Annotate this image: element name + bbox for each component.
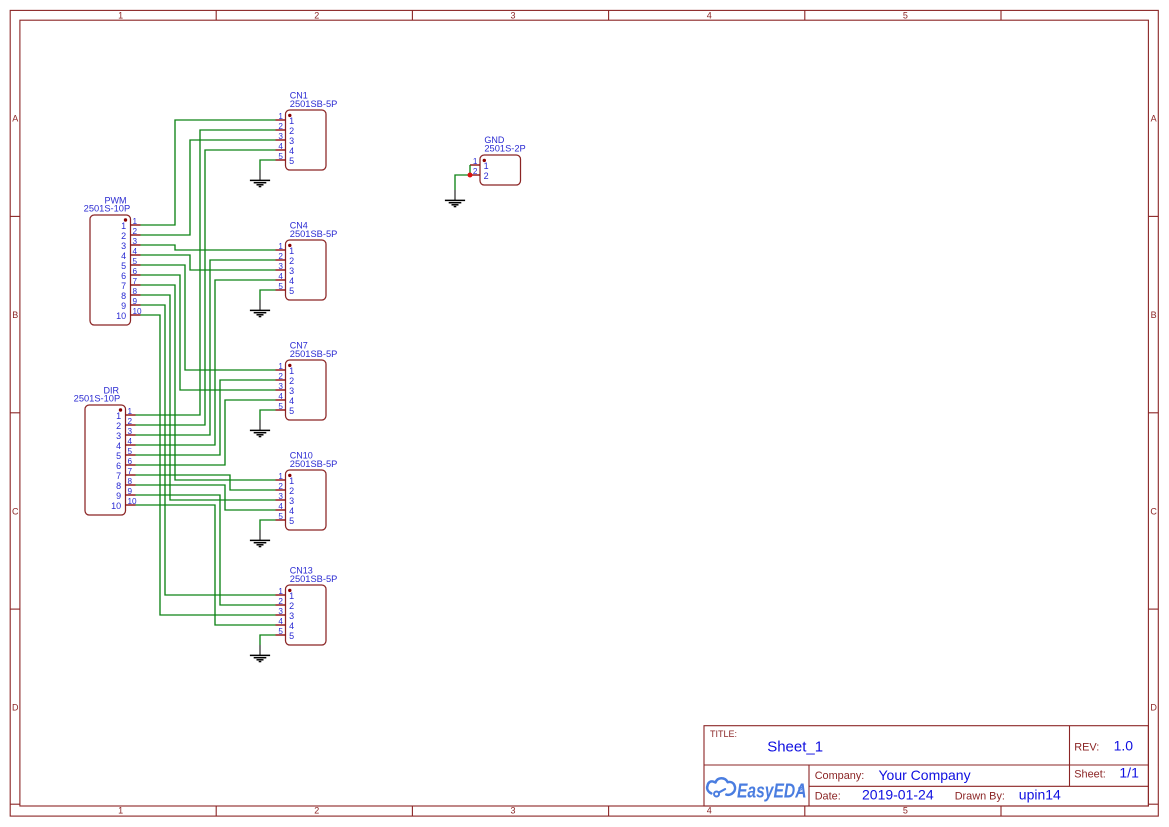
svg-text:A: A xyxy=(1151,114,1157,124)
svg-text:1: 1 xyxy=(278,242,283,251)
svg-text:3: 3 xyxy=(289,136,294,146)
svg-text:2: 2 xyxy=(289,376,294,386)
wire PWM.3 to CN4.1 xyxy=(141,245,276,250)
CN7 pin 2 (stub, pin number, pin name) xyxy=(276,372,295,386)
svg-text:3: 3 xyxy=(289,386,294,396)
DIR pin 10 (stub, pin number, pin name) xyxy=(111,497,137,511)
svg-text:5: 5 xyxy=(278,512,283,521)
wire DIR.9 to CN13.2 xyxy=(136,495,276,605)
CN4 pin 3 (stub, pin number, pin name) xyxy=(276,262,295,276)
svg-text:upin14: upin14 xyxy=(1019,786,1061,802)
CN7 pin 5 (stub, pin number, pin name) xyxy=(276,402,295,416)
DIR pin 2 (stub, pin number, pin name) xyxy=(116,417,135,431)
PWM pin 10 (stub, pin number, pin name) xyxy=(116,307,142,321)
PWM pin 6 (stub, pin number, pin name) xyxy=(121,267,140,281)
svg-text:6: 6 xyxy=(128,457,133,466)
CN13 pin 5 (stub, pin number, pin name) xyxy=(276,627,295,641)
CN10 pin 4 (stub, pin number, pin name) xyxy=(276,502,295,516)
svg-text:5: 5 xyxy=(289,156,294,166)
DIR pin 6 (stub, pin number, pin name) xyxy=(116,457,135,471)
wire DIR.2 to CN1.4 xyxy=(136,150,276,425)
svg-text:4: 4 xyxy=(116,441,121,451)
ground under CN10 xyxy=(250,530,270,547)
svg-text:2: 2 xyxy=(289,486,294,496)
wire DIR.7 to CN10.2 xyxy=(136,475,276,490)
DIR pin 7 (stub, pin number, pin name) xyxy=(116,467,135,481)
svg-text:B: B xyxy=(12,310,18,320)
svg-text:5: 5 xyxy=(278,627,283,636)
GND pin 1 (stub, pin number, pin name) xyxy=(470,157,489,171)
svg-text:3: 3 xyxy=(278,132,283,141)
svg-text:2: 2 xyxy=(121,231,126,241)
ground under CN13 xyxy=(250,645,270,662)
CN4 pin 2 (stub, pin number, pin name) xyxy=(276,252,295,266)
wire GND.2 to ground xyxy=(455,175,470,190)
CN1 pin 4 (stub, pin number, pin name) xyxy=(276,142,295,156)
svg-text:4: 4 xyxy=(289,506,294,516)
EasyEDA logo xyxy=(707,778,735,796)
CN13 pin-1 marker dot xyxy=(288,589,291,592)
connector CN10 xyxy=(276,450,338,530)
svg-text:1: 1 xyxy=(128,407,133,416)
svg-text:2: 2 xyxy=(314,11,319,21)
DIR pin 4 (stub, pin number, pin name) xyxy=(116,437,135,451)
svg-text:5: 5 xyxy=(289,516,294,526)
svg-text:1: 1 xyxy=(118,806,123,816)
svg-text:1: 1 xyxy=(484,161,489,171)
PWM pin 9 (stub, pin number, pin name) xyxy=(121,297,140,311)
svg-text:1: 1 xyxy=(278,472,283,481)
svg-text:Drawn By:: Drawn By: xyxy=(955,790,1005,802)
svg-text:3: 3 xyxy=(278,492,283,501)
svg-text:3: 3 xyxy=(278,607,283,616)
svg-text:1: 1 xyxy=(133,217,138,226)
svg-text:3: 3 xyxy=(133,237,138,246)
PWM body xyxy=(90,215,131,325)
svg-text:4: 4 xyxy=(121,251,126,261)
svg-text:5: 5 xyxy=(278,152,283,161)
svg-text:2501SB-5P: 2501SB-5P xyxy=(290,349,338,359)
svg-text:5: 5 xyxy=(903,11,908,21)
PWM pin 3 (stub, pin number, pin name) xyxy=(121,237,140,251)
wire PWM.1 to CN1.1 xyxy=(141,120,276,225)
svg-text:1: 1 xyxy=(289,476,294,486)
junction at GND pin 2 xyxy=(468,173,473,178)
svg-text:B: B xyxy=(1151,310,1157,320)
svg-text:2: 2 xyxy=(278,482,283,491)
svg-text:4: 4 xyxy=(128,437,133,446)
CN4 pin 4 (stub, pin number, pin name) xyxy=(276,272,295,286)
svg-text:6: 6 xyxy=(121,271,126,281)
PWM pin 5 (stub, pin number, pin name) xyxy=(121,257,140,271)
CN10 body xyxy=(286,470,327,530)
svg-text:2501S-2P: 2501S-2P xyxy=(484,144,525,154)
svg-text:2: 2 xyxy=(278,372,283,381)
connector CN7 xyxy=(276,340,338,420)
wire CN4.5 to ground xyxy=(260,290,276,300)
svg-text:5: 5 xyxy=(278,282,283,291)
wire CN1.5 to ground xyxy=(260,160,276,170)
CN10 pin 3 (stub, pin number, pin name) xyxy=(276,492,295,506)
connector DIR xyxy=(74,385,137,515)
wire CN10.5 to ground xyxy=(260,520,276,530)
connector CN13 xyxy=(276,565,338,645)
svg-text:2: 2 xyxy=(289,601,294,611)
svg-text:4: 4 xyxy=(289,621,294,631)
svg-text:5: 5 xyxy=(133,257,138,266)
CN10 pin 1 (stub, pin number, pin name) xyxy=(276,472,295,486)
connector CN4 xyxy=(276,220,338,300)
svg-text:9: 9 xyxy=(121,301,126,311)
svg-text:9: 9 xyxy=(128,487,133,496)
svg-text:4: 4 xyxy=(289,276,294,286)
svg-text:2501SB-5P: 2501SB-5P xyxy=(290,99,338,109)
svg-text:8: 8 xyxy=(133,287,138,296)
svg-text:6: 6 xyxy=(133,267,138,276)
svg-text:4: 4 xyxy=(289,396,294,406)
CN1 pin-1 marker dot xyxy=(288,114,291,117)
svg-text:1/1: 1/1 xyxy=(1119,765,1139,781)
svg-text:4: 4 xyxy=(278,272,283,281)
svg-text:5: 5 xyxy=(289,631,294,641)
svg-text:2501SB-5P: 2501SB-5P xyxy=(290,574,338,584)
GND body xyxy=(480,155,521,185)
svg-text:D: D xyxy=(12,703,19,713)
svg-text:3: 3 xyxy=(278,382,283,391)
CN13 pin 1 (stub, pin number, pin name) xyxy=(276,587,295,601)
svg-text:10: 10 xyxy=(111,501,121,511)
svg-text:4: 4 xyxy=(278,142,283,151)
CN10 pin 5 (stub, pin number, pin name) xyxy=(276,512,295,526)
svg-text:D: D xyxy=(1150,703,1157,713)
ground under CN4 xyxy=(250,300,270,317)
svg-text:Company:: Company: xyxy=(815,770,865,782)
CN1 pin 5 (stub, pin number, pin name) xyxy=(276,152,295,166)
CN1 pin 2 (stub, pin number, pin name) xyxy=(276,122,295,136)
svg-text:2501SB-5P: 2501SB-5P xyxy=(290,229,338,239)
wire DIR.10 to CN13.4 xyxy=(136,505,276,625)
svg-text:9: 9 xyxy=(133,297,138,306)
svg-text:5: 5 xyxy=(289,286,294,296)
svg-text:EasyEDA: EasyEDA xyxy=(737,779,807,802)
svg-text:5: 5 xyxy=(278,402,283,411)
svg-text:1: 1 xyxy=(289,116,294,126)
svg-text:Sheet:: Sheet: xyxy=(1074,769,1106,781)
svg-text:2: 2 xyxy=(289,256,294,266)
svg-text:A: A xyxy=(12,114,18,124)
wire DIR.4 to CN4.4 xyxy=(136,280,276,445)
PWM pin 4 (stub, pin number, pin name) xyxy=(121,247,140,261)
svg-text:4: 4 xyxy=(278,617,283,626)
PWM pin 1 (stub, pin number, pin name) xyxy=(121,217,140,231)
svg-text:5: 5 xyxy=(116,451,121,461)
wire PWM.5 to CN7.1 xyxy=(141,265,276,370)
wire PWM.9 to CN13.1 xyxy=(141,305,276,595)
svg-text:1: 1 xyxy=(278,112,283,121)
svg-text:2: 2 xyxy=(133,227,138,236)
svg-text:TITLE:: TITLE: xyxy=(710,729,737,739)
CN1 pin 1 (stub, pin number, pin name) xyxy=(276,112,295,126)
svg-text:5: 5 xyxy=(289,406,294,416)
ground under CN1 xyxy=(250,170,270,187)
svg-text:1: 1 xyxy=(278,362,283,371)
svg-text:8: 8 xyxy=(116,481,121,491)
svg-text:Date:: Date: xyxy=(815,790,841,802)
svg-text:2: 2 xyxy=(278,252,283,261)
wire GND.1 to GND.2 node xyxy=(469,165,471,175)
svg-text:1: 1 xyxy=(116,411,121,421)
svg-text:REV:: REV: xyxy=(1074,742,1099,754)
svg-text:5: 5 xyxy=(903,806,908,816)
PWM pin 7 (stub, pin number, pin name) xyxy=(121,277,140,291)
CN13 pin 2 (stub, pin number, pin name) xyxy=(276,597,295,611)
svg-text:2: 2 xyxy=(278,122,283,131)
wire PWM.7 to CN10.1 xyxy=(141,285,276,480)
wire PWM.6 to CN7.3 xyxy=(141,275,276,390)
DIR pin 1 (stub, pin number, pin name) xyxy=(116,407,135,421)
svg-text:4: 4 xyxy=(133,247,138,256)
svg-text:C: C xyxy=(12,506,19,516)
CN7 pin 1 (stub, pin number, pin name) xyxy=(276,362,295,376)
svg-text:4: 4 xyxy=(278,502,283,511)
svg-text:8: 8 xyxy=(121,291,126,301)
CN4 body xyxy=(286,240,327,300)
connector CN1 xyxy=(276,90,338,170)
svg-text:3: 3 xyxy=(121,241,126,251)
ground for GND connector xyxy=(445,190,465,207)
wire PWM.8 to CN10.3 xyxy=(141,295,276,500)
svg-text:3: 3 xyxy=(289,611,294,621)
svg-text:5: 5 xyxy=(128,447,133,456)
svg-text:4: 4 xyxy=(707,11,712,21)
svg-text:7: 7 xyxy=(133,277,138,286)
svg-text:2501S-10P: 2501S-10P xyxy=(74,394,121,404)
svg-text:4: 4 xyxy=(278,392,283,401)
wire PWM.10 to CN13.3 xyxy=(141,315,276,615)
wire DIR.8 to CN10.4 xyxy=(136,485,276,510)
CN10 pin 2 (stub, pin number, pin name) xyxy=(276,482,295,496)
CN4 pin 1 (stub, pin number, pin name) xyxy=(276,242,295,256)
svg-text:3: 3 xyxy=(128,427,133,436)
GND pin-1 marker dot xyxy=(483,159,486,162)
svg-text:1: 1 xyxy=(289,246,294,256)
wire PWM.2 to CN1.3 xyxy=(141,140,276,235)
CN4 pin-1 marker dot xyxy=(288,244,291,247)
svg-text:2501SB-5P: 2501SB-5P xyxy=(290,459,338,469)
GND pin 2 (stub, pin number, pin name) xyxy=(470,167,489,181)
DIR pin-1 marker dot xyxy=(119,408,122,411)
svg-text:1.0: 1.0 xyxy=(1114,738,1134,754)
wire DIR.5 to CN7.2 xyxy=(136,380,276,455)
svg-text:1: 1 xyxy=(278,587,283,596)
svg-text:8: 8 xyxy=(128,477,133,486)
CN4 pin 5 (stub, pin number, pin name) xyxy=(276,282,295,296)
svg-text:3: 3 xyxy=(278,262,283,271)
svg-text:6: 6 xyxy=(116,461,121,471)
DIR pin 3 (stub, pin number, pin name) xyxy=(116,427,135,441)
svg-text:7: 7 xyxy=(128,467,133,476)
svg-text:4: 4 xyxy=(289,146,294,156)
title block xyxy=(704,726,1148,806)
PWM pin 8 (stub, pin number, pin name) xyxy=(121,287,140,301)
svg-text:2: 2 xyxy=(128,417,133,426)
svg-text:2: 2 xyxy=(116,421,121,431)
wire PWM.4 to CN4.3 xyxy=(141,255,276,270)
svg-text:10: 10 xyxy=(116,311,126,321)
DIR pin 8 (stub, pin number, pin name) xyxy=(116,477,135,491)
svg-text:3: 3 xyxy=(289,496,294,506)
wire DIR.1 to CN1.2 xyxy=(136,130,276,415)
svg-text:3: 3 xyxy=(510,11,515,21)
DIR pin 5 (stub, pin number, pin name) xyxy=(116,447,135,461)
svg-text:C: C xyxy=(1150,506,1157,516)
CN1 pin 3 (stub, pin number, pin name) xyxy=(276,132,295,146)
PWM pin-1 marker dot xyxy=(124,218,127,221)
svg-text:3: 3 xyxy=(289,266,294,276)
svg-text:2: 2 xyxy=(289,126,294,136)
CN7 pin-1 marker dot xyxy=(288,364,291,367)
svg-text:2019-01-24: 2019-01-24 xyxy=(862,786,934,802)
svg-text:7: 7 xyxy=(121,281,126,291)
wire DIR.3 to CN4.2 xyxy=(136,260,276,435)
CN13 body xyxy=(286,585,327,645)
svg-text:7: 7 xyxy=(116,471,121,481)
svg-text:9: 9 xyxy=(116,491,121,501)
DIR pin 9 (stub, pin number, pin name) xyxy=(116,487,135,501)
title block texts xyxy=(710,729,1106,802)
svg-text:4: 4 xyxy=(707,806,712,816)
svg-text:2: 2 xyxy=(473,167,478,176)
CN13 pin 3 (stub, pin number, pin name) xyxy=(276,607,295,621)
svg-text:1: 1 xyxy=(473,157,478,166)
CN7 pin 4 (stub, pin number, pin name) xyxy=(276,392,295,406)
svg-text:Sheet_1: Sheet_1 xyxy=(767,739,823,756)
svg-text:5: 5 xyxy=(121,261,126,271)
wire CN13.5 to ground xyxy=(260,635,276,645)
wire CN7.5 to ground xyxy=(260,410,276,420)
svg-text:1: 1 xyxy=(118,11,123,21)
CN10 pin-1 marker dot xyxy=(288,474,291,477)
connector PWM xyxy=(84,195,142,325)
DIR body xyxy=(85,405,126,515)
CN13 pin 4 (stub, pin number, pin name) xyxy=(276,617,295,631)
svg-text:Your Company: Your Company xyxy=(879,767,971,783)
svg-text:3: 3 xyxy=(116,431,121,441)
wire DIR.6 to CN7.4 xyxy=(136,400,276,465)
svg-text:3: 3 xyxy=(510,806,515,816)
CN1 body xyxy=(286,110,327,170)
connector GND xyxy=(470,135,526,185)
svg-text:1: 1 xyxy=(289,591,294,601)
svg-text:1: 1 xyxy=(121,221,126,231)
CN7 body xyxy=(286,360,327,420)
CN7 pin 3 (stub, pin number, pin name) xyxy=(276,382,295,396)
svg-text:2: 2 xyxy=(314,806,319,816)
PWM pin 2 (stub, pin number, pin name) xyxy=(121,227,140,241)
svg-text:2: 2 xyxy=(484,171,489,181)
ground under CN7 xyxy=(250,420,270,437)
svg-text:1: 1 xyxy=(289,366,294,376)
svg-text:2501S-10P: 2501S-10P xyxy=(84,204,131,214)
svg-text:2: 2 xyxy=(278,597,283,606)
